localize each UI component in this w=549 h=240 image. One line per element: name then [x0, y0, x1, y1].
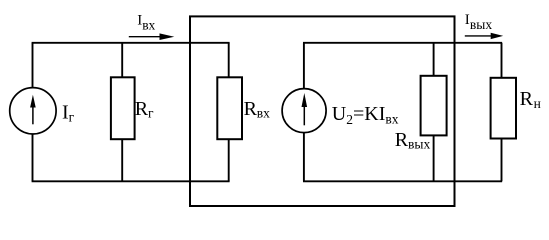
arrow Iвх: [129, 33, 175, 40]
wire: input bottom rail: [32, 180, 230, 182]
wire: output bottom rail: [303, 180, 502, 182]
svg-text:н: н: [534, 96, 541, 111]
svg-text:R: R: [244, 98, 258, 120]
wire: input top rail: [32, 42, 230, 44]
resistor Rвх: [217, 43, 242, 182]
svg-text:г: г: [69, 109, 75, 124]
resistor Rн: [491, 43, 516, 182]
svg-text:вых: вых: [470, 17, 492, 32]
label Rвых: [395, 129, 431, 152]
current source Iг: [10, 43, 56, 182]
svg-text:R: R: [395, 129, 409, 151]
svg-text:вх: вх: [142, 18, 155, 33]
label Iвх: [137, 13, 155, 33]
arrow Iвых: [465, 33, 503, 39]
four-pole box: [190, 16, 455, 206]
dependent current source U2=KIвх: [282, 43, 326, 182]
svg-text:R: R: [520, 88, 534, 110]
label Iг: [62, 102, 75, 125]
svg-text:R: R: [135, 98, 149, 120]
svg-text:вх: вх: [257, 106, 270, 121]
resistor Rвых: [421, 43, 447, 182]
wire: output top rail: [303, 42, 502, 44]
svg-text:вых: вых: [408, 137, 430, 152]
svg-text:г: г: [148, 106, 154, 121]
label Iвых: [465, 12, 493, 32]
label U2=KIвх: [332, 103, 399, 127]
resistor Rг: [111, 43, 135, 182]
label Rвх: [244, 98, 271, 121]
label Rн: [520, 88, 541, 111]
label Rг: [135, 98, 154, 120]
